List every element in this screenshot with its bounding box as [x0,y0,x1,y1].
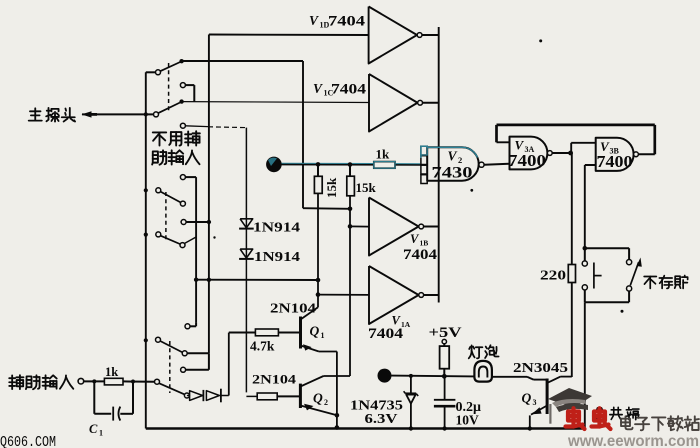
svg-text:1N914: 1N914 [254,249,300,264]
svg-text:2N3045: 2N3045 [513,361,568,376]
svg-text:3: 3 [533,398,537,407]
svg-text:10V: 10V [456,413,480,428]
svg-text:2: 2 [324,398,328,407]
svg-text:7404: 7404 [331,82,366,98]
svg-text:C: C [89,422,98,436]
svg-text:7400: 7400 [508,151,546,170]
svg-text:7404: 7404 [403,247,437,263]
svg-text:15k: 15k [324,177,339,198]
svg-text:2N104: 2N104 [270,301,316,316]
svg-text:V: V [313,81,323,96]
svg-text:1k: 1k [105,365,118,379]
svg-text:1N914: 1N914 [253,220,300,235]
svg-text:7430: 7430 [432,165,473,182]
svg-text:Q: Q [313,391,323,406]
svg-text:1: 1 [99,429,103,438]
svg-text:2: 2 [458,155,462,165]
svg-text:7404: 7404 [368,326,403,342]
svg-text:7400: 7400 [597,152,633,171]
svg-text:Q: Q [310,324,320,339]
svg-text:Q: Q [522,391,532,406]
svg-text:www.eeworm.com: www.eeworm.com [567,433,699,448]
svg-text:V: V [448,149,458,164]
svg-text:4.7k: 4.7k [250,339,275,354]
svg-text:7404: 7404 [328,14,365,30]
svg-text:15k: 15k [356,180,377,195]
svg-text:+5V: +5V [429,325,462,341]
svg-text:1k: 1k [376,147,391,162]
svg-text:Q606.COM: Q606.COM [0,435,56,448]
svg-text:220: 220 [540,269,566,284]
svg-text:6.3V: 6.3V [365,411,398,426]
svg-text:2N104: 2N104 [252,372,297,387]
svg-text:1: 1 [321,331,325,340]
svg-text:V: V [309,13,319,28]
